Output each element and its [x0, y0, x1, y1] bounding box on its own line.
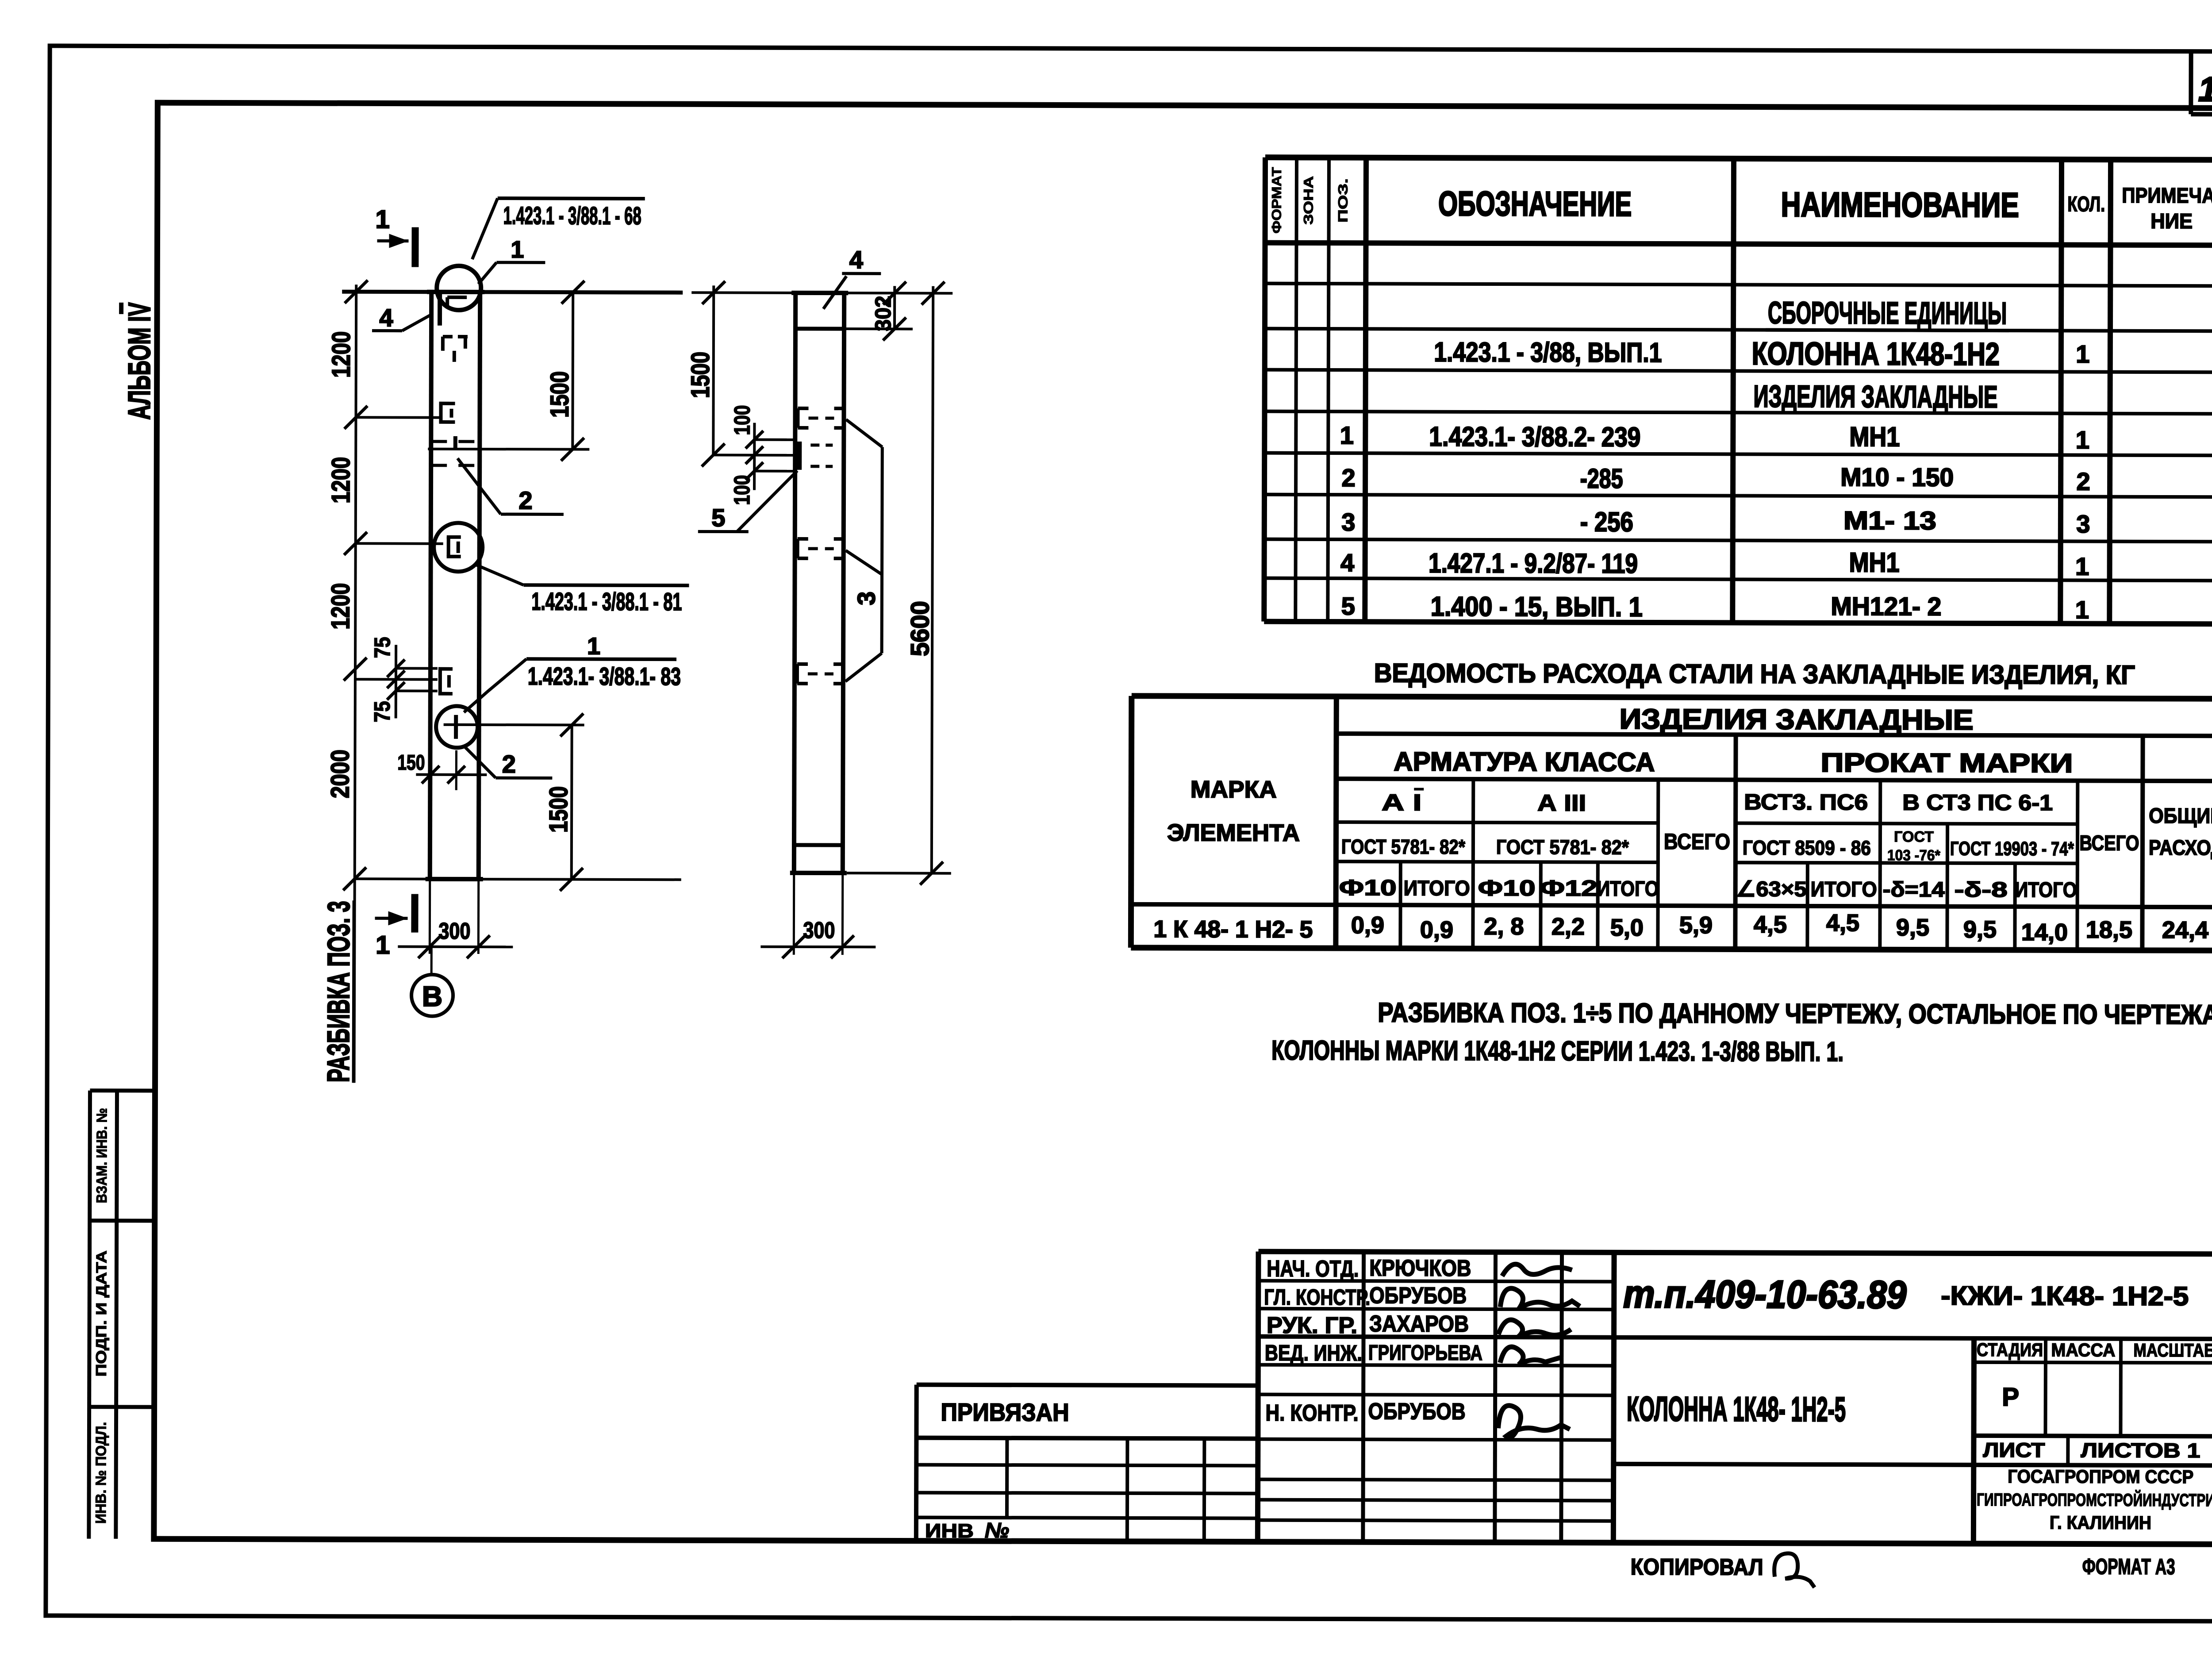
- svg-text:№: №: [985, 1519, 1009, 1542]
- svg-text:3: 3: [852, 592, 880, 605]
- svg-text:2: 2: [518, 486, 532, 514]
- svg-text:0,9: 0,9: [1351, 912, 1384, 938]
- svg-text:ВЗАМ. ИНВ. №: ВЗАМ. ИНВ. №: [93, 1108, 110, 1203]
- svg-text:1.427.1 - 9.2/87- 119: 1.427.1 - 9.2/87- 119: [1429, 548, 1638, 579]
- svg-text:14,0: 14,0: [2021, 919, 2068, 946]
- svg-text:ГОСАГРОПРОМ СССР: ГОСАГРОПРОМ СССР: [2008, 1466, 2193, 1487]
- svg-text:ЗАХАРОВ: ЗАХАРОВ: [1369, 1311, 1469, 1337]
- svg-text:КОПИРОВАЛ: КОПИРОВАЛ: [1631, 1554, 1763, 1580]
- right view: embed pair at level 947: [798, 408, 844, 428]
- svg-text:ИТОГО: ИТОГО: [1597, 877, 1659, 901]
- bottom dim 300 (right view): [760, 873, 876, 959]
- svg-text:РАЗБИВКА ПОЗ. 3: РАЗБИВКА ПОЗ. 3: [321, 901, 356, 1082]
- svg-text:ПОЗ.: ПОЗ.: [1336, 178, 1351, 223]
- label Инв №: [925, 1519, 1009, 1542]
- spec header: Примечание: [2122, 184, 2212, 234]
- svg-text:1500: 1500: [544, 786, 573, 833]
- svg-text:150: 150: [397, 751, 425, 775]
- spec row: Сборочные единицы: [1766, 296, 2009, 331]
- svg-text:9,5: 9,5: [1963, 916, 1997, 943]
- svg-text:1.423.1 - 3/88.1 - 81: 1.423.1 - 3/88.1 - 81: [531, 587, 682, 615]
- svg-text:ПРИВЯЗАН: ПРИВЯЗАН: [941, 1398, 1069, 1426]
- svg-text:В: В: [422, 980, 442, 1012]
- svg-text:ПОДП. И ДАТА: ПОДП. И ДАТА: [93, 1250, 110, 1376]
- svg-text:4: 4: [1340, 549, 1354, 577]
- leader bracket for pos 3 embeds: [845, 419, 883, 681]
- spec row 1: 1.423.1-3/88.2-239 / МН1 / 1: [1340, 420, 2089, 454]
- svg-text:НАЧ. ОТД.: НАЧ. ОТД.: [1267, 1256, 1359, 1282]
- svg-text:1.400 - 15, ВЫП. 1: 1.400 - 15, ВЫП. 1: [1431, 592, 1643, 623]
- svg-text:ИНВ. № ПОДЛ.: ИНВ. № ПОДЛ.: [92, 1422, 109, 1524]
- svg-text:-δ-8: -δ-8: [1955, 878, 2008, 902]
- steel subheaders phi10 etc: [1339, 875, 2077, 902]
- svg-text:2, 8: 2, 8: [1484, 913, 1524, 940]
- svg-text:КОЛОННЫ МАРКИ 1К48-1Н2 СЕ: КОЛОННЫ МАРКИ 1К48-1Н2 СЕРИИ 1.423. 1-3/…: [1271, 1035, 1843, 1067]
- svg-text:КОЛ.: КОЛ.: [2067, 192, 2105, 216]
- svg-text:КРЮЧКОВ: КРЮЧКОВ: [1369, 1255, 1471, 1281]
- title block grid: [1258, 1252, 2212, 1545]
- svg-text:ИЗДЕЛИЯ ЗАКЛАДНЫЕ: ИЗДЕЛИЯ ЗАКЛАДНЫЕ: [1620, 703, 1974, 736]
- svg-text:Р: Р: [2002, 1383, 2019, 1411]
- svg-text:ГИПРОАГРОПРОМСТРОЙИНДУСТРИЯ: ГИПРОАГРОПРОМСТРОЙИНДУСТРИЯ: [1977, 1489, 2212, 1510]
- steel header: Общий расход: [2149, 803, 2212, 860]
- svg-text:ГОСТ: ГОСТ: [1894, 828, 1934, 845]
- titleblock signatures: [1498, 1264, 1580, 1438]
- right view: embed pair at level 1525: [797, 664, 843, 684]
- svg-text:3: 3: [2076, 510, 2090, 538]
- svg-text:ЛИСТОВ 1: ЛИСТОВ 1: [2081, 1439, 2200, 1462]
- svg-text:А I: А I: [1382, 790, 1421, 815]
- svg-text:- 256: - 256: [1580, 507, 1633, 538]
- section mark 1-1 top: [375, 205, 415, 267]
- svg-text:ГЛ. КОНСТР.: ГЛ. КОНСТР.: [1264, 1285, 1370, 1310]
- svg-text:ГОСТ 5781- 82*: ГОСТ 5781- 82*: [1341, 835, 1465, 858]
- dim line 1500 upper right: [428, 281, 590, 461]
- svg-text:3: 3: [1341, 508, 1355, 536]
- svg-text:МН1: МН1: [1849, 422, 1900, 452]
- svg-text:75: 75: [370, 701, 395, 722]
- spec row 2: -285 / М10-150 / 2: [1341, 461, 2090, 495]
- steel header: А I: [1382, 789, 1424, 815]
- leader and label 4 (left column): [372, 304, 432, 331]
- embed mark at level 1540 with 75/75 dims: [438, 669, 453, 694]
- svg-text:МН121- 2: МН121- 2: [1831, 592, 1941, 621]
- svg-text:М10 - 150: М10 - 150: [1840, 463, 1954, 492]
- svg-text:1: 1: [511, 236, 524, 263]
- steel table grid: [1131, 696, 2212, 950]
- svg-text:1500: 1500: [545, 371, 574, 418]
- album label: Альбом IV: [121, 302, 157, 419]
- mini dimension 75/75: [355, 645, 438, 718]
- footer: Копировал: [1631, 1553, 1815, 1587]
- svg-text:Ф10: Ф10: [1478, 876, 1536, 900]
- steel header: Марка элемента: [1167, 776, 1300, 846]
- svg-text:5,0: 5,0: [1610, 915, 1644, 941]
- svg-text:АРМАТУРА КЛАССА: АРМАТУРА КЛАССА: [1394, 746, 1655, 777]
- svg-text:∠63×5: ∠63×5: [1736, 877, 1807, 901]
- svg-text:ИТОГО: ИТОГО: [1811, 878, 1877, 901]
- dim 150 at lower circle: [397, 750, 487, 791]
- svg-text:ВСЕГО: ВСЕГО: [1664, 829, 1730, 854]
- svg-text:1: 1: [587, 633, 600, 660]
- svg-text:2: 2: [1341, 464, 1355, 492]
- svg-text:5,9: 5,9: [1679, 912, 1713, 938]
- svg-text:Ф10: Ф10: [1339, 875, 1397, 900]
- svg-text:1: 1: [1340, 421, 1354, 449]
- svg-text:5: 5: [711, 504, 725, 531]
- embed plate 4 at top left edge: [438, 293, 442, 326]
- svg-text:1 К 48- 1 Н2- 5: 1 К 48- 1 Н2- 5: [1153, 916, 1313, 943]
- svg-text:ИЗДЕЛИЯ ЗАКЛАДНЫЕ: ИЗДЕЛИЯ ЗАКЛАДНЫЕ: [1754, 379, 1998, 414]
- svg-text:ФОРМАТ А3: ФОРМАТ А3: [2082, 1554, 2175, 1580]
- svg-text:НИЕ: НИЕ: [2151, 210, 2193, 233]
- svg-text:ПРИМЕЧА-: ПРИМЕЧА-: [2122, 184, 2212, 208]
- left elevation: tie lines at embed levels: [355, 417, 683, 880]
- detail circle at level 1642 (embed 2 lower): [436, 706, 584, 748]
- svg-text:МАССА: МАССА: [2051, 1339, 2115, 1360]
- leader to detail 1.423.1-3/88.1-68: [472, 198, 645, 284]
- embed mark at level 948: [439, 404, 455, 422]
- svg-text:2: 2: [2076, 467, 2090, 495]
- svg-text:ГРИГОРЬЕВА: ГРИГОРЬЕВА: [1368, 1341, 1482, 1365]
- svg-text:ФОРМАТ: ФОРМАТ: [1270, 167, 1284, 234]
- svg-text:ОБРУБОВ: ОБРУБОВ: [1368, 1399, 1466, 1425]
- svg-text:ГОСТ 5781- 82*: ГОСТ 5781- 82*: [1496, 835, 1629, 859]
- mini dims 100/100 (right view): [713, 423, 795, 490]
- svg-text:1200: 1200: [326, 583, 355, 630]
- svg-text:4,5: 4,5: [1754, 911, 1787, 938]
- leader and label 2 (upper): [457, 458, 564, 515]
- svg-text:РУК. ГР.: РУК. ГР.: [1267, 1313, 1357, 1339]
- bound stamp box: Привязан: [916, 1385, 1258, 1542]
- dim 5600 overall: [847, 281, 953, 885]
- leader and label 5: [698, 470, 797, 532]
- svg-text:1.423.1 - 3/88, ВЫП.1: 1.423.1 - 3/88, ВЫП.1: [1434, 337, 1662, 368]
- left elevation: main vertical dimension line: [343, 280, 368, 1083]
- titleblock row labels and names: [1264, 1255, 1483, 1426]
- svg-text:100: 100: [730, 475, 754, 505]
- right view: embed plate 5 on left edge: [799, 442, 833, 470]
- svg-text:1: 1: [2076, 340, 2089, 368]
- svg-text:1: 1: [376, 930, 390, 959]
- svg-text:ЛИСТ: ЛИСТ: [1983, 1438, 2045, 1461]
- svg-text:Ф12: Ф12: [1540, 876, 1598, 900]
- svg-text:НАИМЕНОВАНИЕ: НАИМЕНОВАНИЕ: [1781, 185, 2019, 224]
- svg-text:75: 75: [370, 637, 395, 658]
- svg-text:АЛЬБОМ IV: АЛЬБОМ IV: [122, 302, 157, 419]
- svg-text:ИТОГО: ИТОГО: [2015, 878, 2077, 902]
- axis line and mark B: [411, 947, 453, 1016]
- svg-text:24,4: 24,4: [2162, 917, 2208, 943]
- svg-text:0,9: 0,9: [1420, 917, 1453, 943]
- svg-text:МАРКА: МАРКА: [1190, 776, 1277, 803]
- svg-text:Н. КОНТР.: Н. КОНТР.: [1266, 1400, 1359, 1426]
- svg-text:10: 10: [2198, 69, 2212, 108]
- leader and label 1 / 1.423.1-3/88.1-83: [464, 633, 681, 713]
- titleblock Стадия/Масса/Масштаб: [1977, 1339, 2212, 1412]
- bottom dim 300 (left column): [398, 879, 513, 959]
- spec row: 1.423.1-3/88, вып.1 / Колонна 1К48-1Н2 / 1: [1434, 335, 2089, 373]
- svg-text:ГОСТ 8509 - 86: ГОСТ 8509 - 86: [1743, 836, 1871, 860]
- right view: embed pair at level 1242: [798, 539, 844, 558]
- svg-text:СБОРОЧНЫЕ ЕДИНИЦЫ: СБОРОЧНЫЕ ЕДИНИЦЫ: [1768, 296, 2007, 331]
- svg-text:В СТ3 ПС 6-1: В СТ3 ПС 6-1: [1902, 790, 2053, 815]
- svg-text:2,2: 2,2: [1551, 913, 1585, 940]
- svg-text:1.423.1- 3/88.1- 83: 1.423.1- 3/88.1- 83: [528, 662, 681, 690]
- svg-text:т.п.409-10-63.89: т.п.409-10-63.89: [1623, 1272, 1906, 1317]
- svg-text:4: 4: [849, 246, 863, 273]
- dim 302 at top right of column: [844, 281, 913, 340]
- svg-text:ОБРУБОВ: ОБРУБОВ: [1369, 1283, 1467, 1309]
- leader and label 2 (lower): [464, 746, 552, 778]
- svg-text:4,5: 4,5: [1826, 910, 1859, 936]
- svg-text:А III: А III: [1537, 790, 1586, 816]
- svg-text:1500: 1500: [686, 352, 715, 398]
- page number box 10: [2191, 51, 2212, 114]
- detail circle at column top (embed 1): [437, 266, 481, 362]
- svg-text:1200: 1200: [326, 457, 355, 504]
- svg-text:100: 100: [730, 405, 754, 435]
- spec row 4: 1.427.1-9.2/87-119 / МН1 / 1: [1340, 546, 2089, 580]
- svg-text:ПРОКАТ МАРКИ: ПРОКАТ МАРКИ: [1820, 748, 2073, 778]
- section mark 1-1 bottom: [375, 894, 415, 959]
- detail circle at level 1233 (embed 1.423.1-3/88.1-81): [434, 523, 483, 572]
- steel data row: 1К48-1Н2-5: [1153, 908, 2208, 946]
- titleblock Лист / Листов 1: [1983, 1438, 2200, 1462]
- svg-text:КОЛОННА 1К48-1Н2: КОЛОННА 1К48-1Н2: [1752, 336, 2000, 372]
- svg-text:1.423.1- 3/88.2- 239: 1.423.1- 3/88.2- 239: [1429, 422, 1640, 453]
- hidden plate lines at level 1019 (embed 2): [431, 436, 480, 465]
- specification table grid: [1264, 158, 2212, 624]
- svg-text:1200: 1200: [327, 331, 356, 378]
- left margin stamp strip: [89, 1091, 155, 1539]
- svg-text:ЭЛЕМЕНТА: ЭЛЕМЕНТА: [1167, 819, 1300, 846]
- svg-text:М1- 13: М1- 13: [1843, 506, 1936, 535]
- right column view: body outline: [790, 293, 848, 873]
- svg-text:ВЕДОМОСТЬ РАСХОДА СТАЛИ НА: ВЕДОМОСТЬ РАСХОДА СТАЛИ НА ЗАКЛАДНЫЕ ИЗД…: [1374, 658, 2135, 690]
- svg-text:Г. КАЛИНИН: Г. КАЛИНИН: [2050, 1512, 2151, 1533]
- spec row 3: -256 / М1-13 / 3: [1341, 505, 2090, 538]
- svg-text:ВСТ3. ПС6: ВСТ3. ПС6: [1744, 790, 1868, 815]
- svg-text:5600: 5600: [906, 601, 934, 656]
- svg-text:ИНВ: ИНВ: [925, 1520, 974, 1542]
- svg-text:1: 1: [2075, 596, 2089, 623]
- spec row 5: 1.400-15, вып.1 / МН121-2 / 1: [1341, 591, 2089, 623]
- dim 1500 (right view): [702, 281, 725, 466]
- svg-text:ОБЩИЙ: ОБЩИЙ: [2149, 803, 2212, 828]
- svg-text:ЗОНА: ЗОНА: [1302, 176, 1316, 225]
- svg-text:1: 1: [2075, 552, 2089, 580]
- svg-text:103 -76*: 103 -76*: [1887, 847, 1941, 864]
- svg-text:РАЗБИВКА ПОЗ. 1÷5 ПО ДАННОМУ: РАЗБИВКА ПОЗ. 1÷5 ПО ДАННОМУ ЧЕРТЕЖУ, ОС…: [1378, 997, 2212, 1030]
- svg-text:ВСЕГО: ВСЕГО: [2079, 832, 2139, 855]
- left elevation: top extension line: [342, 292, 683, 292]
- svg-text:300: 300: [803, 918, 835, 943]
- svg-text:-δ=14: -δ=14: [1883, 878, 1945, 901]
- svg-text:1: 1: [375, 205, 389, 234]
- left column elevation: body outline: [426, 292, 484, 879]
- titleblock document number: [1623, 1272, 2189, 1317]
- svg-text:1: 1: [2076, 426, 2089, 454]
- svg-text:4: 4: [379, 304, 393, 331]
- svg-text:МН1: МН1: [1849, 547, 1900, 578]
- right view: top extension line: [691, 292, 952, 293]
- titleblock organization: [1977, 1466, 2212, 1533]
- svg-text:РАСХОД: РАСХОД: [2149, 836, 2212, 860]
- svg-text:1.423.1 - 3/88.1 - 68: 1.423.1 - 3/88.1 - 68: [503, 201, 641, 230]
- svg-text:2000: 2000: [326, 750, 354, 798]
- bound stamp grid: [916, 1438, 1258, 1542]
- leader and label 4 (right view): [823, 246, 881, 309]
- svg-text:МАСШТАБ: МАСШТАБ: [2133, 1340, 2212, 1361]
- steel header: ГОСТ 103-76*: [1887, 828, 1941, 864]
- svg-text:2: 2: [502, 750, 516, 778]
- svg-text:5: 5: [1341, 592, 1355, 620]
- leader to 1.423.1-3/88.1-81: [475, 565, 689, 615]
- svg-text:9,5: 9,5: [1896, 914, 1929, 941]
- svg-text:ВЕД. ИНЖ.: ВЕД. ИНЖ.: [1265, 1341, 1362, 1366]
- dim line 1500 lower right: [560, 714, 584, 891]
- svg-text:-КЖИ- 1К48- 1Н2-5: -КЖИ- 1К48- 1Н2-5: [1941, 1281, 2189, 1311]
- svg-text:СТАДИЯ: СТАДИЯ: [1977, 1339, 2043, 1360]
- svg-text:ОБОЗНАЧЕНИЕ: ОБОЗНАЧЕНИЕ: [1438, 184, 1632, 223]
- svg-text:ГОСТ 19903 - 74*: ГОСТ 19903 - 74*: [1950, 838, 2074, 860]
- svg-text:-285: -285: [1580, 464, 1623, 494]
- svg-text:КОЛОННА 1К48- 1Н2-5: КОЛОННА 1К48- 1Н2-5: [1627, 1389, 1846, 1429]
- view title: Разбивка поз.3: [321, 900, 356, 1083]
- svg-text:300: 300: [438, 919, 470, 944]
- svg-text:302: 302: [871, 296, 895, 331]
- svg-text:18,5: 18,5: [2086, 917, 2132, 943]
- svg-text:ИТОГО: ИТОГО: [1404, 877, 1470, 900]
